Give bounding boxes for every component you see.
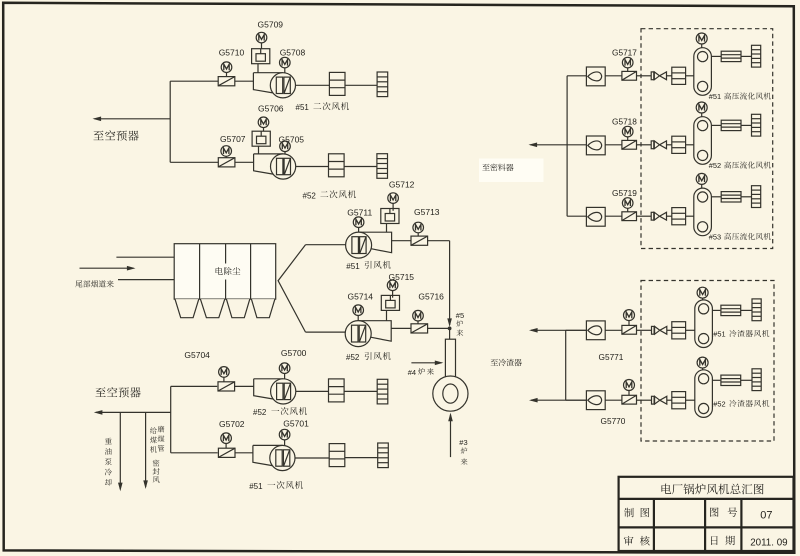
svg-text:G5771: G5771 [599, 352, 624, 362]
arrow down into stack [449, 318, 451, 325]
motor M G5706 [258, 117, 269, 128]
svg-text:#51: #51 [713, 330, 725, 339]
svg-text:G5716: G5716 [418, 291, 444, 301]
ESP hoppers [175, 299, 199, 318]
fan G5711 #51 induced draft fan [346, 232, 392, 258]
motor M G5700 [279, 363, 290, 374]
svg-text:#4: #4 [408, 368, 416, 377]
intake filter row 1 [586, 67, 605, 86]
svg-text:G5712: G5712 [389, 179, 415, 189]
label coal feeder column [150, 427, 157, 452]
motor M blower row 3 [696, 173, 707, 184]
wire row #51 secondary fan inlet [170, 80, 218, 82]
damper G5716 [411, 324, 428, 333]
damper G5707 [218, 158, 235, 167]
label date [711, 536, 718, 545]
wire valve to joint slag row 1 [667, 329, 672, 331]
svg-text:G5709: G5709 [258, 20, 284, 30]
wire header to filter row 2 [567, 144, 586, 146]
wire to expansion row 1 [741, 55, 751, 57]
intake filter slag row 1 [586, 321, 605, 340]
wire valve to joint row 1 [667, 75, 672, 77]
wire damper G5716 to stack header [427, 327, 449, 329]
flue blower scroll [433, 376, 468, 411]
arrow to slag cooler row 2 [531, 399, 587, 401]
wire to expansion row 2 [741, 124, 751, 126]
junction dot [448, 327, 452, 331]
fan G5701 #51 primary air fan [253, 445, 295, 470]
flex joint slag row 1 [672, 322, 686, 339]
wire filter to damper G5717 [605, 75, 622, 77]
flex joint row 1 [672, 67, 686, 84]
wire joint to blower row 1 [686, 75, 694, 77]
expansion joint row 1 [752, 45, 761, 67]
wire silencer to expansion joint [345, 84, 377, 86]
wire filter to damper G5718 [605, 144, 622, 146]
svg-text:G5717: G5717 [612, 48, 637, 58]
svg-text:#52: #52 [709, 161, 721, 170]
arrow flue gas flow [80, 267, 134, 269]
damper G5702 [218, 448, 235, 457]
svg-text:#5: #5 [456, 311, 464, 320]
wire blower outlet row 2 [712, 124, 722, 126]
arrow from #3 furnace [450, 415, 452, 458]
label flue duct inlet [75, 280, 113, 287]
roots blower #52 fluidization fan [694, 117, 712, 165]
roots blower #52 slag cooler fan [695, 370, 713, 418]
arrow to air preheater (top) [95, 118, 171, 120]
wire blower outlet slag row 1 [713, 309, 721, 311]
intake filter row 3 [586, 207, 605, 226]
svg-text:#51: #51 [709, 92, 721, 101]
arrow to air preheater (bottom) [96, 411, 171, 413]
wire drop mill seal air [145, 412, 147, 482]
label to air preheater (top) [93, 130, 138, 140]
fan G5714 #52 induced draft fan [345, 321, 391, 347]
silencer #51 primary [329, 444, 345, 467]
svg-text:G5706: G5706 [258, 104, 284, 114]
wire fluidization header [566, 76, 568, 216]
damper G5710 [218, 77, 235, 86]
expansion joint row 2 [752, 114, 761, 136]
roots blower #53 fluidization fan [694, 188, 712, 236]
wire damper to valve slag row 1 [637, 329, 652, 331]
wire fan G5705 outlet [296, 166, 329, 168]
motor M G5709 [256, 32, 267, 43]
label heavy oil cooling (vertical) [105, 438, 112, 486]
motor M slag blower row 1 [697, 287, 708, 298]
expansion joint slag row 2 [752, 369, 761, 391]
wire arrow to filter row 1 [566, 329, 587, 331]
wire valve to joint slag row 2 [667, 399, 672, 401]
motor M slag blower row 2 [697, 357, 708, 368]
motor M G5710 [221, 62, 232, 73]
ESP outlet chevron [278, 245, 305, 332]
label coal mill column [158, 426, 165, 452]
wire damper to valve row 1 [637, 75, 652, 77]
wire drop heavy-oil cooling [119, 412, 121, 484]
wire damper to valve slag row 2 [637, 399, 652, 401]
stack duct [445, 339, 455, 378]
motor M G5702 [221, 433, 232, 444]
white patch [479, 159, 544, 183]
motor M G5770 [624, 380, 635, 391]
silencer #52 secondary [329, 154, 345, 177]
positioner box G5709 [252, 49, 270, 64]
svg-text:#52: #52 [253, 408, 267, 417]
wire damper to valve row 3 [637, 215, 652, 217]
wire row #51 primary fan inlet [171, 452, 218, 454]
wire stack header vertical [449, 241, 451, 318]
svg-text:G5770: G5770 [601, 416, 626, 426]
expansion joint #51 primary [378, 443, 389, 468]
label to seal feeder [482, 164, 513, 171]
motor M G5717 [622, 57, 633, 68]
svg-text:G5718: G5718 [612, 117, 637, 127]
wire valve to joint row 2 [667, 144, 672, 146]
wire flue inlet upper [116, 256, 174, 258]
wire joint to blower slag row 1 [686, 329, 695, 331]
wire fan G5700 outlet [296, 390, 329, 392]
svg-text:07: 07 [760, 510, 772, 522]
valve row 3 [651, 212, 666, 220]
wire to expansion #52 primary [344, 390, 377, 392]
wire valve to joint row 3 [667, 215, 672, 217]
svg-text:G5707: G5707 [220, 134, 246, 144]
motor M G5707 [221, 146, 232, 157]
svg-text:G5719: G5719 [612, 188, 637, 198]
wire filter to damper G5719 [605, 215, 622, 217]
positioner box G5715 [381, 295, 399, 310]
wire damper to valve row 2 [637, 144, 652, 146]
svg-text:#51: #51 [249, 482, 263, 491]
wire blower outlet row 3 [712, 196, 722, 198]
wire header to filter row 3 [567, 215, 586, 217]
arrow to seal-material feeder [531, 144, 568, 146]
wire fan G5711 outlet [392, 240, 412, 242]
title block frame [619, 477, 794, 551]
svg-text:G5714: G5714 [348, 292, 374, 302]
motor M G5718 [622, 126, 633, 137]
roots blower #51 slag cooler fan [695, 300, 713, 348]
valve row 1 [651, 72, 666, 80]
svg-text:G5713: G5713 [414, 207, 440, 217]
svg-text:G5715: G5715 [389, 272, 415, 282]
label ESP [216, 267, 241, 275]
wire slag cooler header [565, 330, 567, 400]
wire damper G5704 to fan G5700 [235, 385, 254, 387]
svg-text:#52: #52 [346, 353, 360, 362]
label seal air column [153, 460, 160, 483]
motor M G5713 [413, 222, 424, 233]
label to air preheater (bottom) [95, 387, 140, 397]
damper G5770 [622, 395, 637, 404]
outlet silencer slag row 1 [721, 305, 741, 315]
svg-text:#52: #52 [303, 191, 317, 200]
motor M G5719 [622, 198, 633, 209]
intake filter slag row 2 [586, 391, 605, 410]
expansion joint #52 primary [377, 379, 388, 404]
label drawing number [710, 507, 719, 516]
motor M G5712 [388, 193, 399, 204]
motor M G5711 [353, 217, 364, 228]
arrow from #4 furnace [411, 362, 441, 364]
silencer #51 secondary [329, 72, 345, 95]
wire trunk primary-air header [170, 386, 172, 452]
wire joint to blower slag row 2 [686, 399, 695, 401]
wire damper G5702 to fan G5701 [235, 452, 253, 454]
outlet silencer row 1 [721, 51, 741, 61]
motor M G5715 [387, 280, 398, 291]
damper G5704 [218, 382, 235, 391]
damper G5713 [411, 236, 428, 245]
wire row #52 secondary fan inlet [170, 161, 218, 163]
motor M blower row 1 [696, 33, 707, 44]
wire ESP to fan G5711 [306, 244, 346, 246]
wire flue inlet lower [118, 279, 174, 281]
valve slag row 2 [652, 396, 667, 404]
motor M G5704 [219, 367, 230, 378]
fan G5700 #52 primary air fan [254, 379, 296, 404]
svg-text:G5711: G5711 [347, 207, 372, 217]
damper G5718 [622, 140, 637, 149]
svg-text:#52: #52 [713, 400, 725, 409]
wire filter to damper G5770 [605, 399, 622, 401]
fan G5705 #52 secondary air fan [254, 154, 296, 179]
roots blower #51 fluidization fan [694, 48, 712, 96]
flex joint row 2 [672, 136, 686, 153]
silencer #52 primary [329, 379, 345, 402]
wire damper G5710 to fan G5706 inlet [235, 80, 254, 82]
wire ESP to fan G5714 [306, 331, 346, 333]
arrow to slag cooler row 1 [531, 329, 587, 331]
fan G5706 #51 secondary air fan [253, 73, 295, 98]
wire to expansion row 3 [741, 196, 751, 198]
wire joint to blower row 3 [686, 215, 694, 217]
wire fan G5714 outlet [391, 327, 411, 329]
wire to expansion #51 primary [345, 457, 378, 459]
damper G5771 [622, 325, 637, 334]
wire trunk secondary-air header x170 [169, 81, 171, 162]
expansion joint #52 secondary [377, 154, 388, 179]
wire header to filter row 1 [567, 75, 586, 77]
positioner box G5712 [381, 209, 399, 224]
svg-text:G5701: G5701 [283, 418, 309, 428]
electrostatic precipitator box [174, 244, 276, 299]
label drawn-by [624, 508, 634, 517]
ESP divider 2 (broken for label) [225, 244, 227, 264]
arrow mill seal air [145, 482, 147, 487]
svg-text:#51: #51 [296, 103, 310, 112]
dashed enclosure slag cooler fans [641, 281, 774, 442]
wire blower outlet slag row 2 [713, 379, 721, 381]
motor M blower row 2 [696, 102, 707, 113]
motor M G5701 [279, 429, 290, 440]
expansion joint row 3 [752, 186, 761, 208]
damper G5717 [622, 71, 637, 80]
svg-text:G5704: G5704 [184, 350, 210, 360]
expansion joint slag row 1 [752, 299, 761, 321]
motor M G5714 [353, 305, 364, 316]
wire to expansion joint #52 secondary [344, 166, 377, 168]
wire to expansion slag row 2 [741, 379, 752, 381]
wire filter to damper G5771 [605, 329, 622, 331]
outlet silencer row 3 [721, 192, 741, 202]
dashed enclosure high-pressure fluidization fans [641, 29, 773, 249]
wire arrow to filter row 2 [566, 399, 587, 401]
svg-text:G5710: G5710 [219, 48, 245, 58]
flex joint slag row 2 [672, 392, 686, 409]
title text power plant boiler fan summary [661, 484, 763, 495]
label checked-by [624, 536, 634, 546]
wire damper G5707 to fan G5705 inlet [235, 161, 254, 163]
wire joint to blower row 2 [686, 144, 694, 146]
motor M G5708 [280, 57, 291, 68]
damper G5719 [622, 212, 637, 221]
expansion joint #51 secondary [377, 72, 388, 97]
intake filter row 2 [586, 136, 605, 155]
outlet silencer slag row 2 [721, 375, 741, 385]
svg-text:G5705: G5705 [279, 135, 305, 145]
valve slag row 1 [652, 326, 667, 334]
wire damper G5713 to stack header [427, 240, 449, 242]
arrow heavy-oil cooling [119, 484, 121, 489]
motor M G5716 [413, 310, 424, 321]
svg-text:2011. 09: 2011. 09 [750, 538, 787, 549]
svg-text:G5708: G5708 [280, 48, 306, 58]
svg-text:#3: #3 [459, 438, 467, 447]
motor M G5705 [280, 141, 291, 152]
wire to expansion slag row 1 [741, 309, 752, 311]
outlet silencer row 2 [721, 120, 741, 130]
wire fan G5706 outlet [296, 84, 330, 86]
label to slag cooler [491, 359, 522, 366]
wire fan G5701 outlet [295, 457, 329, 459]
svg-text:G5700: G5700 [281, 348, 307, 358]
positioner box G5706 [252, 131, 270, 146]
wire blower outlet row 1 [712, 55, 722, 57]
valve row 2 [651, 141, 666, 149]
ESP divider 3 [250, 244, 252, 299]
svg-text:#53: #53 [709, 232, 721, 241]
flex joint row 3 [672, 208, 686, 225]
ESP divider 1 [199, 244, 201, 299]
svg-text:#51: #51 [346, 262, 360, 271]
motor M G5771 [624, 310, 635, 321]
svg-text:G5702: G5702 [219, 419, 245, 429]
wire row #52 primary fan inlet [171, 385, 218, 387]
